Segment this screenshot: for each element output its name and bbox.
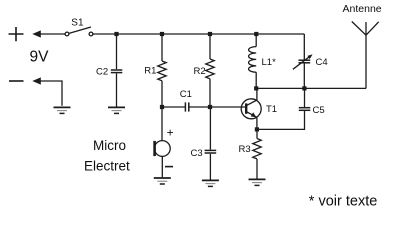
svg-text:T1: T1 xyxy=(266,104,277,115)
svg-text:R2: R2 xyxy=(194,66,206,77)
inductor L1 xyxy=(255,34,257,47)
ground R3 xyxy=(249,179,266,185)
svg-text:C5: C5 xyxy=(313,105,325,116)
wire minus lead arrow xyxy=(40,81,62,106)
node R1 bottom xyxy=(160,105,164,109)
svg-text:C1: C1 xyxy=(180,89,192,100)
node C2 top xyxy=(114,32,118,36)
transistor T1 xyxy=(241,99,261,119)
resistor R2 xyxy=(209,34,211,59)
switch S1 xyxy=(65,32,69,36)
svg-text:R1: R1 xyxy=(144,66,156,77)
node R1 top xyxy=(160,32,164,36)
svg-text:C3: C3 xyxy=(191,148,203,159)
svg-text:* voir texte: * voir texte xyxy=(309,193,378,209)
svg-text:Electret: Electret xyxy=(84,158,130,173)
svg-text:9V: 9V xyxy=(30,49,50,66)
battery plus terminal xyxy=(9,27,24,41)
wire collector xyxy=(256,88,258,100)
svg-text:L1*: L1* xyxy=(262,57,277,68)
node R2 top xyxy=(208,32,212,36)
wire plus lead arrow xyxy=(40,33,65,35)
svg-text:R3: R3 xyxy=(239,144,251,155)
svg-text:S1: S1 xyxy=(71,18,84,29)
capacitor C5 xyxy=(304,90,306,107)
capacitor C1 xyxy=(164,106,185,108)
resistor R3 xyxy=(256,130,258,139)
node C4 bottom xyxy=(302,86,306,90)
node L1 top xyxy=(254,32,258,36)
capacitor C3 xyxy=(209,109,211,150)
ground microphone xyxy=(154,178,171,184)
svg-text:Antenne: Antenne xyxy=(343,3,382,15)
battery minus terminal xyxy=(9,80,24,82)
node emitter xyxy=(255,127,259,131)
ground battery minus xyxy=(54,107,71,113)
svg-text:C4: C4 xyxy=(316,57,328,68)
wire emitter xyxy=(256,118,258,130)
ground C2 xyxy=(108,107,125,113)
wire base xyxy=(212,106,247,108)
svg-text:C2: C2 xyxy=(96,66,108,77)
microphone electret xyxy=(161,109,163,141)
wire top supply rail xyxy=(93,33,304,35)
ground C3 xyxy=(202,180,219,186)
wire tank bottom / antenna feed xyxy=(256,87,366,89)
antenna xyxy=(365,35,367,88)
capacitor C4 variable xyxy=(303,34,305,60)
svg-text:+: + xyxy=(167,126,174,140)
node R2 bottom xyxy=(208,105,212,109)
resistor R1 xyxy=(161,34,163,61)
capacitor C2 xyxy=(116,34,118,69)
node L1 bottom xyxy=(254,86,258,90)
svg-text:Micro: Micro xyxy=(93,138,126,153)
